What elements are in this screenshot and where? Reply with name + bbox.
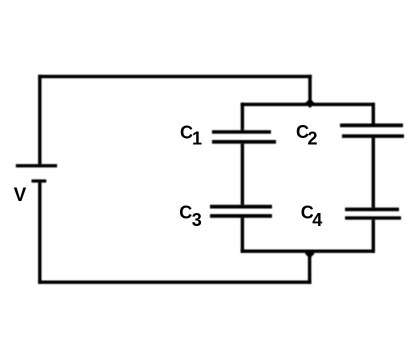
svg-text:4: 4 (312, 210, 322, 230)
label C2 (296, 122, 318, 148)
node B bottom junction dot (305, 249, 315, 258)
capacitor C4 (345, 208, 401, 220)
capacitor C1 (212, 130, 276, 144)
wire left vertical upper lead to battery (38, 75, 41, 164)
wire left vertical lower lead from battery (38, 183, 41, 284)
wire left branch: C1 to C3 (241, 144, 244, 205)
wire left branch: C3 to bottom edge (241, 218, 244, 253)
wire right branch: top edge to C2 (372, 103, 375, 124)
wire left branch: top edge to C1 (241, 103, 244, 131)
svg-text:2: 2 (308, 128, 318, 148)
wire top horizontal from battery + to top node (38, 75, 312, 78)
battery V long positive plate (16, 164, 57, 167)
label C3 (179, 203, 202, 230)
wire bridge bottom edge (241, 250, 375, 253)
capacitor C2 (340, 124, 404, 138)
wire right branch: C2 to C4 (372, 138, 375, 208)
label C1 (180, 123, 202, 149)
svg-text:C: C (179, 203, 192, 223)
svg-text:1: 1 (192, 128, 202, 148)
svg-text:V: V (14, 185, 27, 206)
label C4 (301, 202, 323, 230)
wire bridge top edge (241, 103, 375, 106)
wire bottom drop from node B to bottom wire (308, 253, 311, 284)
wire bottom horizontal to bottom node (38, 281, 311, 284)
wire top-right vertical drop to node A (308, 75, 311, 106)
node A top junction dot (305, 98, 315, 108)
capacitor C3 (210, 205, 272, 218)
svg-text:3: 3 (192, 210, 202, 230)
battery V short negative plate (32, 179, 47, 182)
wire right branch: C4 to bottom edge (372, 220, 375, 253)
